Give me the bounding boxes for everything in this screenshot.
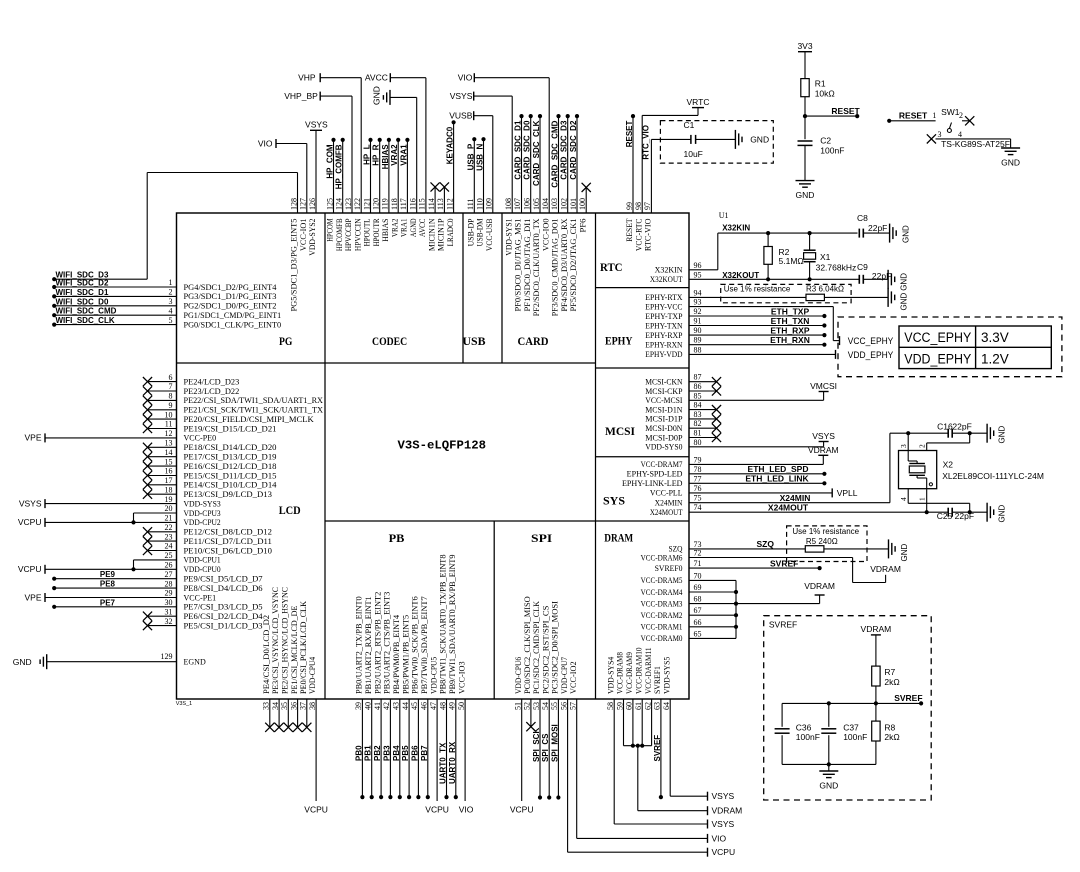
svg-text:VCC-USB: VCC-USB: [485, 218, 494, 251]
svg-text:VRA2: VRA2: [390, 144, 399, 166]
svg-text:PE12/CSI_D8/LCD_D12: PE12/CSI_D8/LCD_D12: [184, 528, 272, 537]
svg-text:HP_COM: HP_COM: [326, 144, 335, 179]
svg-text:VCC-DRAM6: VCC-DRAM6: [641, 553, 683, 562]
svg-text:SVREF0: SVREF0: [655, 564, 683, 573]
svg-text:13: 13: [165, 439, 173, 448]
svg-text:PB9/TWI1_SDA/UART0_RX/PB_EINT9: PB9/TWI1_SDA/UART0_RX/PB_EINT9: [448, 555, 457, 695]
svg-text:PB6: PB6: [410, 745, 419, 761]
svg-text:VCC-IO2: VCC-IO2: [569, 661, 578, 694]
svg-text:C1: C1: [684, 120, 695, 130]
svg-text:VPE: VPE: [24, 433, 41, 443]
svg-text:SVREF1: SVREF1: [653, 666, 662, 694]
svg-text:82: 82: [694, 419, 702, 428]
svg-text:PE1/CSI_MCLK/LCD_DE: PE1/CSI_MCLK/LCD_DE: [290, 605, 299, 694]
svg-text:USB_N: USB_N: [476, 143, 485, 170]
svg-text:VCC-DRAM2: VCC-DRAM2: [641, 611, 683, 620]
svg-text:ETH_TXN: ETH_TXN: [771, 316, 810, 326]
svg-text:113: 113: [436, 198, 445, 210]
svg-text:17: 17: [165, 476, 173, 485]
svg-text:VCC-DRAM3: VCC-DRAM3: [641, 599, 683, 608]
svg-text:VCPU: VCPU: [304, 805, 328, 815]
svg-text:PB4/PWM0/PB_EINT4: PB4/PWM0/PB_EINT4: [392, 615, 401, 694]
svg-text:HPVCCIN: HPVCCIN: [353, 218, 362, 251]
svg-text:PC3/SDC2_D0/SPI_MOSI: PC3/SDC2_D0/SPI_MOSI: [551, 601, 560, 694]
svg-text:12: 12: [165, 429, 173, 438]
svg-text:RESET: RESET: [831, 106, 860, 116]
svg-text:98: 98: [634, 202, 643, 210]
svg-text:LRADC0: LRADC0: [446, 219, 455, 247]
svg-text:USB_P: USB_P: [466, 143, 475, 170]
svg-text:VCC-DRAM5: VCC-DRAM5: [641, 576, 683, 585]
svg-text:GND: GND: [372, 86, 382, 105]
svg-text:MCSI-D0N: MCSI-D0N: [645, 424, 682, 433]
svg-text:70: 70: [694, 571, 702, 580]
svg-text:X24MIN: X24MIN: [655, 499, 683, 508]
svg-text:15: 15: [165, 457, 173, 466]
svg-text:101: 101: [569, 198, 578, 210]
svg-text:29: 29: [165, 589, 173, 598]
svg-text:SVREF: SVREF: [894, 693, 922, 703]
svg-text:121: 121: [362, 198, 371, 210]
svg-text:RESET: RESET: [625, 120, 634, 147]
svg-text:X24MOUT: X24MOUT: [650, 508, 683, 517]
svg-text:EPHY-VCC: EPHY-VCC: [645, 302, 682, 311]
svg-text:PE8/CSI_D4/LCD_D6: PE8/CSI_D4/LCD_D6: [184, 584, 263, 593]
svg-text:71: 71: [694, 559, 702, 568]
svg-text:PE3/CSI_VSYNC/LCD_VSYNC: PE3/CSI_VSYNC/LCD_VSYNC: [271, 587, 280, 694]
svg-text:PF5/SDC0_D2/JTAG_CK1: PF5/SDC0_D2/JTAG_CK1: [569, 219, 578, 312]
svg-text:PB6/TWI0_SCK/PB_EINT6: PB6/TWI0_SCK/PB_EINT6: [411, 596, 420, 694]
svg-text:GND: GND: [900, 273, 909, 291]
svg-text:Use 1% resistance: Use 1% resistance: [792, 527, 859, 536]
svg-text:EPHY-TXN: EPHY-TXN: [645, 321, 682, 330]
svg-text:PE6/CSI_D2/LCD_D4: PE6/CSI_D2/LCD_D4: [184, 612, 263, 621]
svg-text:PE14/CSI_D10/LCD_D14: PE14/CSI_D10/LCD_D14: [184, 481, 277, 490]
svg-text:23: 23: [165, 532, 173, 541]
svg-text:CARD_SDC_CMD: CARD_SDC_CMD: [551, 120, 560, 187]
svg-text:SYS: SYS: [603, 494, 625, 508]
svg-text:HPCOM: HPCOM: [326, 219, 335, 242]
svg-text:PB7/TWI0_SDA/PB_EINT7: PB7/TWI0_SDA/PB_EINT7: [420, 596, 429, 694]
svg-text:10: 10: [165, 410, 173, 419]
svg-text:WIFI_SDC_D0: WIFI_SDC_D0: [56, 297, 109, 306]
svg-text:HBIAS: HBIAS: [381, 219, 390, 242]
svg-text:VDD-SYS2: VDD-SYS2: [308, 219, 317, 256]
svg-text:3V3: 3V3: [797, 41, 812, 51]
svg-text:95: 95: [694, 270, 702, 279]
svg-text:VHP_BP: VHP_BP: [284, 91, 318, 101]
svg-text:24: 24: [165, 542, 173, 551]
svg-text:VDRAM: VDRAM: [870, 564, 901, 574]
svg-text:83: 83: [694, 410, 702, 419]
svg-text:22pF: 22pF: [952, 422, 971, 432]
svg-text:EPHY-TXP: EPHY-TXP: [645, 312, 683, 321]
svg-text:75: 75: [694, 494, 702, 503]
svg-text:X2: X2: [943, 460, 954, 470]
svg-text:SW1: SW1: [941, 107, 960, 117]
svg-text:HPOUTR: HPOUTR: [372, 218, 381, 246]
svg-text:14: 14: [165, 448, 173, 457]
svg-text:99: 99: [625, 202, 634, 210]
svg-text:123: 123: [344, 198, 353, 210]
svg-text:22pF: 22pF: [868, 223, 887, 233]
svg-text:VPLL: VPLL: [837, 488, 858, 498]
svg-text:PF3/SDC0_CMD/JTAG_DO1: PF3/SDC0_CMD/JTAG_DO1: [551, 219, 560, 317]
svg-text:PG4/SDC1_D2/PG_EINT4: PG4/SDC1_D2/PG_EINT4: [184, 283, 277, 292]
svg-text:VDD-CPU2: VDD-CPU2: [184, 518, 221, 527]
svg-text:PB3: PB3: [382, 745, 391, 761]
svg-text:GND: GND: [902, 225, 911, 243]
svg-text:AVCC: AVCC: [365, 72, 388, 82]
svg-text:RTC: RTC: [600, 260, 623, 274]
svg-text:PG1/SDC1_CMD/PG_EINT1: PG1/SDC1_CMD/PG_EINT1: [184, 311, 282, 320]
svg-text:LCD: LCD: [279, 503, 301, 517]
svg-text:PE17/CSI_D13/LCD_D19: PE17/CSI_D13/LCD_D19: [184, 453, 277, 462]
svg-text:76: 76: [694, 484, 702, 493]
svg-text:104: 104: [541, 198, 550, 210]
svg-text:VDD-CPU4: VDD-CPU4: [308, 657, 317, 694]
svg-text:VCPU: VCPU: [712, 847, 736, 857]
svg-text:GND: GND: [998, 426, 1007, 444]
svg-text:RESET: RESET: [899, 111, 928, 121]
svg-text:22pF: 22pF: [872, 271, 891, 281]
svg-text:VDD_EPHY: VDD_EPHY: [848, 350, 894, 360]
svg-text:2: 2: [959, 111, 963, 120]
svg-text:HPOUTL: HPOUTL: [363, 218, 372, 246]
svg-text:EPHY-LINK-LED: EPHY-LINK-LED: [622, 479, 683, 488]
svg-text:110: 110: [475, 198, 484, 210]
svg-text:EPHY-SPD-LED: EPHY-SPD-LED: [627, 470, 683, 479]
svg-text:32: 32: [165, 617, 173, 626]
svg-text:118: 118: [390, 198, 399, 210]
svg-text:RTC_VIO: RTC_VIO: [642, 125, 651, 160]
svg-text:MICIN1N: MICIN1N: [427, 218, 436, 251]
svg-text:88: 88: [694, 345, 702, 354]
svg-text:X24MOUT: X24MOUT: [768, 503, 809, 513]
svg-text:TS-KG89S-AT25F: TS-KG89S-AT25F: [941, 139, 1010, 149]
svg-text:EPHY: EPHY: [605, 334, 633, 348]
svg-text:X1: X1: [820, 252, 831, 262]
svg-text:VCC-DRAM7: VCC-DRAM7: [641, 460, 683, 469]
svg-text:VPE: VPE: [24, 592, 41, 602]
svg-text:112: 112: [445, 198, 454, 210]
svg-text:CODEC: CODEC: [372, 334, 407, 348]
svg-text:38: 38: [308, 702, 317, 710]
svg-text:80: 80: [694, 438, 702, 447]
svg-text:R3 6.04kΩ: R3 6.04kΩ: [806, 284, 844, 293]
svg-text:ETH_RXP: ETH_RXP: [770, 325, 810, 335]
svg-text:81: 81: [694, 429, 702, 438]
svg-text:VDD-SYS1: VDD-SYS1: [504, 218, 513, 255]
svg-text:USB-DP: USB-DP: [467, 218, 476, 246]
svg-text:C25 22pF: C25 22pF: [937, 511, 974, 521]
svg-text:PE4/CSI_D0/LCD_D2: PE4/CSI_D0/LCD_D2: [262, 615, 271, 694]
svg-text:VDD-CPU1: VDD-CPU1: [184, 556, 221, 565]
svg-text:SPI_CS: SPI_CS: [541, 733, 550, 762]
svg-text:VCC_EPHY: VCC_EPHY: [848, 336, 894, 346]
svg-text:VDD_EPHY: VDD_EPHY: [904, 352, 971, 367]
svg-text:120: 120: [372, 198, 381, 210]
svg-text:2: 2: [918, 444, 927, 448]
svg-text:CARD_SDC_CLK: CARD_SDC_CLK: [532, 120, 541, 186]
svg-text:48: 48: [438, 702, 447, 710]
svg-text:9: 9: [169, 401, 173, 410]
svg-text:PE9/CSI_D5/LCD_D7: PE9/CSI_D5/LCD_D7: [184, 575, 263, 584]
svg-text:VCC-IO0: VCC-IO0: [541, 219, 550, 252]
svg-text:PB5: PB5: [401, 745, 410, 761]
svg-text:28: 28: [165, 579, 173, 588]
svg-text:PG2/SDC1_D0/PG_EINT2: PG2/SDC1_D0/PG_EINT2: [184, 302, 277, 311]
svg-text:WIFI_SDC_D3: WIFI_SDC_D3: [56, 271, 109, 280]
svg-text:DRAM: DRAM: [604, 531, 633, 545]
svg-text:VSYS: VSYS: [450, 91, 473, 101]
svg-text:R8: R8: [884, 722, 895, 732]
svg-text:PE10/CSI_D6/LCD_D10: PE10/CSI_D6/LCD_D10: [184, 546, 272, 555]
svg-text:PF6: PF6: [578, 219, 587, 233]
svg-text:79: 79: [694, 455, 702, 464]
svg-text:SVREF: SVREF: [769, 620, 797, 630]
svg-text:PE0/CSI_PCLK/LCD_CLK: PE0/CSI_PCLK/LCD_CLK: [299, 601, 308, 694]
svg-text:8: 8: [169, 392, 173, 401]
svg-text:SPI_MOSI: SPI_MOSI: [550, 724, 559, 762]
svg-text:5: 5: [169, 316, 173, 325]
svg-text:111: 111: [466, 199, 475, 210]
svg-text:VCPU: VCPU: [18, 517, 42, 527]
svg-text:VRA1: VRA1: [400, 219, 409, 238]
svg-text:PG5/SDC1_D3/PG_EINT5: PG5/SDC1_D3/PG_EINT5: [290, 219, 299, 312]
svg-text:19: 19: [165, 495, 173, 504]
svg-text:VDD-CPU3: VDD-CPU3: [184, 509, 221, 518]
svg-text:100nF: 100nF: [843, 732, 867, 742]
svg-text:GND: GND: [900, 544, 909, 562]
svg-text:VMCSI: VMCSI: [810, 381, 837, 391]
svg-text:WIFI_SDC_D2: WIFI_SDC_D2: [56, 279, 109, 288]
svg-text:3: 3: [899, 444, 908, 448]
svg-text:22: 22: [165, 523, 173, 532]
svg-text:VDD-CPU5: VDD-CPU5: [429, 657, 438, 694]
svg-text:GND: GND: [13, 657, 32, 667]
svg-text:PE21/CSI_SCK/TWI1_SCK/UART1_TX: PE21/CSI_SCK/TWI1_SCK/UART1_TX: [184, 406, 324, 415]
svg-text:PE18/CSI_D14/LCD_D20: PE18/CSI_D14/LCD_D20: [184, 443, 277, 452]
svg-text:2: 2: [169, 288, 173, 297]
svg-text:C16: C16: [937, 422, 953, 432]
svg-text:VDD-CPU6: VDD-CPU6: [514, 657, 523, 694]
svg-text:C37: C37: [843, 722, 859, 732]
svg-text:16: 16: [165, 467, 173, 476]
svg-text:VDRAM: VDRAM: [712, 806, 743, 816]
svg-text:GND: GND: [1001, 158, 1020, 168]
svg-text:SZQ: SZQ: [757, 539, 775, 549]
svg-text:4: 4: [169, 306, 173, 315]
svg-text:PG3/SDC1_D1/PG_EINT3: PG3/SDC1_D1/PG_EINT3: [184, 292, 277, 301]
svg-text:PF4/SDC0_D3/UART0_RX: PF4/SDC0_D3/UART0_RX: [560, 218, 569, 311]
svg-text:VCC-PE1: VCC-PE1: [184, 593, 217, 602]
svg-text:21: 21: [165, 514, 173, 523]
svg-text:86: 86: [694, 382, 702, 391]
svg-text:PE7: PE7: [100, 598, 116, 607]
svg-text:44: 44: [401, 702, 410, 710]
svg-text:PF1/SDC0_D0/JTAG_DI1: PF1/SDC0_D0/JTAG_DI1: [523, 219, 532, 312]
svg-text:124: 124: [335, 198, 344, 210]
svg-text:SPI: SPI: [531, 531, 552, 545]
svg-text:18: 18: [165, 485, 173, 494]
svg-text:2kΩ: 2kΩ: [884, 677, 899, 687]
svg-text:27: 27: [165, 570, 173, 579]
svg-text:PE7/CSI_D3/LCD_D5: PE7/CSI_D3/LCD_D5: [184, 603, 263, 612]
svg-text:PG0/SDC1_CLK/PG_EINT0: PG0/SDC1_CLK/PG_EINT0: [184, 320, 282, 329]
svg-text:VDD-SYS3: VDD-SYS3: [184, 499, 221, 508]
svg-text:CARD: CARD: [518, 334, 549, 348]
svg-text:3.3V: 3.3V: [981, 330, 1009, 345]
svg-text:EPHY-RXP: EPHY-RXP: [645, 331, 683, 340]
svg-text:41: 41: [373, 702, 382, 710]
svg-text:VSYS: VSYS: [812, 431, 835, 441]
svg-text:GND: GND: [750, 134, 769, 144]
svg-text:KEYADC0: KEYADC0: [446, 126, 455, 164]
svg-text:HP_L: HP_L: [363, 144, 372, 165]
svg-text:VHP: VHP: [298, 72, 316, 82]
svg-text:100: 100: [578, 198, 587, 210]
svg-text:103: 103: [550, 198, 559, 210]
svg-text:HPCOMFB: HPCOMFB: [335, 219, 344, 252]
svg-text:31: 31: [165, 607, 173, 616]
svg-text:PE5/CSI_D1/LCD_D3: PE5/CSI_D1/LCD_D3: [184, 621, 263, 630]
svg-text:VDD-CPU7: VDD-CPU7: [560, 657, 569, 694]
svg-text:SPI_SCK: SPI_SCK: [532, 728, 541, 762]
svg-text:PC2/SDC2_RST/SPI_CS: PC2/SDC2_RST/SPI_CS: [541, 606, 550, 694]
svg-text:106: 106: [523, 198, 532, 210]
svg-text:PF2/SDC0_CLK/UART0_TX: PF2/SDC0_CLK/UART0_TX: [532, 218, 541, 316]
svg-text:65: 65: [694, 629, 702, 638]
svg-text:VRA1: VRA1: [399, 144, 408, 166]
svg-text:PB3/UART2_CTS/PB_EINT3: PB3/UART2_CTS/PB_EINT3: [383, 592, 392, 694]
svg-text:6: 6: [169, 373, 173, 382]
svg-text:PE13/CSI_D9/LCD_D13: PE13/CSI_D9/LCD_D13: [184, 490, 272, 499]
svg-text:107: 107: [513, 198, 522, 210]
svg-text:34: 34: [271, 702, 280, 710]
svg-text:USB: USB: [463, 334, 486, 348]
svg-text:CARD_SDC_D2: CARD_SDC_D2: [569, 120, 578, 180]
svg-text:72: 72: [694, 549, 702, 558]
svg-text:74: 74: [694, 503, 702, 512]
svg-text:1: 1: [932, 111, 936, 120]
svg-text:47: 47: [429, 702, 438, 710]
svg-text:VSYS: VSYS: [712, 819, 735, 829]
svg-text:PE15/CSI_D11/LCD_D15: PE15/CSI_D11/LCD_D15: [184, 471, 277, 480]
svg-text:HBIAS: HBIAS: [381, 144, 390, 170]
svg-text:126: 126: [308, 198, 317, 210]
svg-text:UART0_RX: UART0_RX: [448, 741, 457, 784]
svg-text:VDRAM: VDRAM: [861, 624, 892, 634]
svg-text:VIO: VIO: [258, 138, 273, 148]
svg-text:MCSI-D1N: MCSI-D1N: [645, 405, 682, 414]
svg-text:5.1MΩ: 5.1MΩ: [779, 256, 804, 266]
svg-text:128: 128: [289, 198, 298, 210]
svg-text:3: 3: [169, 297, 173, 306]
svg-text:102: 102: [560, 198, 569, 210]
svg-text:PE20/CSI_FIELD/CSI_MIPI_MCLK: PE20/CSI_FIELD/CSI_MIPI_MCLK: [184, 415, 314, 424]
svg-text:HP_R: HP_R: [372, 144, 381, 166]
svg-text:4: 4: [958, 130, 962, 139]
svg-text:AVCC: AVCC: [418, 219, 427, 238]
svg-text:PB5/PWM1/PB_EINT5: PB5/PWM1/PB_EINT5: [401, 615, 410, 694]
svg-text:94: 94: [694, 288, 702, 297]
svg-text:11: 11: [165, 420, 173, 429]
svg-text:VCC-PE0: VCC-PE0: [184, 434, 217, 443]
svg-text:X32KOUT: X32KOUT: [650, 275, 683, 284]
svg-text:USB-DM: USB-DM: [476, 219, 485, 247]
svg-text:89: 89: [694, 336, 702, 345]
svg-text:87: 87: [694, 373, 702, 382]
svg-text:ETH_TXP: ETH_TXP: [771, 306, 810, 316]
svg-text:PE8: PE8: [100, 580, 116, 589]
svg-text:VSYS: VSYS: [712, 791, 735, 801]
svg-text:CARD_SDC_D3: CARD_SDC_D3: [560, 120, 569, 180]
svg-text:SVREF: SVREF: [653, 735, 662, 762]
svg-text:115: 115: [418, 198, 427, 210]
svg-text:PC0/SDC2_CLK/SPI_MISO: PC0/SDC2_CLK/SPI_MISO: [523, 596, 532, 694]
svg-text:VDRAM: VDRAM: [804, 581, 835, 591]
svg-text:VSYS: VSYS: [305, 119, 328, 129]
svg-text:PB2: PB2: [373, 745, 382, 761]
svg-text:CARD_SDC_D0: CARD_SDC_D0: [523, 120, 532, 180]
svg-text:VDD-SYS0: VDD-SYS0: [645, 443, 682, 452]
svg-text:109: 109: [485, 198, 494, 210]
svg-text:117: 117: [399, 198, 408, 210]
svg-text:100nF: 100nF: [820, 145, 844, 155]
svg-text:RESET: RESET: [625, 218, 634, 241]
svg-text:90: 90: [694, 326, 702, 335]
svg-text:VIO: VIO: [712, 833, 727, 843]
svg-text:ETH_LED_LINK: ETH_LED_LINK: [745, 474, 809, 484]
svg-text:PF0/SDC0_DI/JTAG_MS1: PF0/SDC0_DI/JTAG_MS1: [514, 219, 523, 312]
svg-text:VRTC: VRTC: [687, 97, 710, 107]
svg-text:PB4: PB4: [392, 745, 401, 761]
svg-text:C2: C2: [820, 136, 831, 146]
svg-text:125: 125: [325, 198, 334, 210]
svg-text:GND: GND: [900, 293, 909, 311]
svg-text:105: 105: [532, 198, 541, 210]
svg-text:67: 67: [694, 606, 702, 615]
svg-text:VCC-DARM11: VCC-DARM11: [644, 648, 653, 695]
svg-text:84: 84: [694, 401, 702, 410]
svg-text:VCC-DRAM8: VCC-DRAM8: [616, 652, 625, 694]
svg-text:C9: C9: [857, 262, 868, 272]
svg-text:68: 68: [694, 595, 702, 604]
svg-text:EPHY-RXN: EPHY-RXN: [645, 341, 682, 350]
svg-text:119: 119: [381, 198, 390, 210]
svg-text:PB0: PB0: [354, 745, 363, 761]
svg-text:VCC-IO3: VCC-IO3: [457, 661, 466, 694]
svg-text:PE2/CSI_HSYNC/LCD_HSYNC: PE2/CSI_HSYNC/LCD_HSYNC: [281, 587, 290, 694]
svg-text:Use 1% resistance: Use 1% resistance: [724, 284, 791, 293]
svg-text:VDD-SYS4: VDD-SYS4: [606, 657, 615, 694]
svg-text:VSYS: VSYS: [19, 498, 42, 508]
svg-text:96: 96: [694, 261, 702, 270]
svg-text:PE16/CSI_D12/LCD_D18: PE16/CSI_D12/LCD_D18: [184, 462, 277, 471]
svg-text:GND: GND: [796, 190, 815, 200]
svg-text:1: 1: [169, 278, 173, 287]
svg-text:7: 7: [169, 382, 173, 391]
svg-text:EPHY-RTX: EPHY-RTX: [645, 293, 682, 302]
svg-text:VDD-CPU0: VDD-CPU0: [184, 565, 221, 574]
svg-text:VCC-DRAM4: VCC-DRAM4: [641, 588, 683, 597]
svg-text:69: 69: [694, 583, 702, 592]
svg-text:MCSI-CKN: MCSI-CKN: [645, 378, 682, 387]
svg-text:VIO: VIO: [458, 72, 473, 82]
svg-text:92: 92: [694, 307, 702, 316]
svg-text:VCC-RTC: VCC-RTC: [634, 219, 643, 252]
